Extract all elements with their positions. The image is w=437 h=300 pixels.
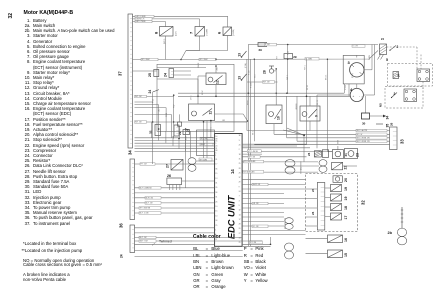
svg-text:W/R .5: W/R .5 [287, 75, 289, 80]
svg-text:36: 36 [215, 168, 217, 170]
svg-text:24: 24 [148, 90, 152, 94]
svg-text:17: 17 [215, 164, 217, 166]
svg-text:31: 31 [215, 197, 217, 199]
svg-text:SB .75: SB .75 [317, 100, 319, 105]
svg-text:27: 27 [166, 164, 170, 168]
svg-text:W/Y .5M: W/Y .5M [201, 138, 208, 140]
svg-text:26: 26 [167, 174, 171, 178]
svg-text:+: + [353, 94, 355, 98]
svg-text:27: 27 [239, 233, 241, 235]
svg-text:LBN/GN: LBN/GN [296, 103, 298, 110]
svg-text:31: 31 [149, 130, 153, 134]
svg-text:26: 26 [239, 172, 241, 174]
svg-text:W/Y .5M: W/Y .5M [263, 82, 270, 84]
svg-text:7: 7 [239, 196, 240, 198]
svg-text:33: 33 [239, 238, 241, 240]
svg-text:20: 20 [344, 178, 348, 182]
svg-text:31: 31 [215, 159, 217, 161]
svg-text:BN .75: BN .75 [326, 75, 328, 80]
svg-text:24: 24 [311, 211, 315, 215]
svg-text:25: 25 [215, 225, 217, 227]
svg-text:R/Y SB/SB-BN: R/Y SB/SB-BN [243, 171, 255, 173]
svg-text:SB .5: SB .5 [253, 131, 255, 135]
svg-text:24: 24 [120, 254, 124, 258]
svg-text:15: 15 [215, 173, 217, 175]
svg-text:14: 14 [239, 214, 241, 216]
svg-text:29: 29 [239, 182, 241, 184]
svg-text:R 1.5M: R 1.5M [251, 82, 253, 88]
svg-text:32: 32 [8, 13, 14, 19]
svg-text:BL/Y 0.5MM SB: BL/Y 0.5MM SB [140, 187, 153, 189]
svg-text:(R 25): (R 25) [352, 73, 354, 78]
svg-text:Twinned: Twinned [159, 239, 172, 243]
svg-text:5: 5 [215, 234, 216, 236]
svg-text:(1.5MM): (1.5MM) [233, 29, 235, 36]
svg-text:29: 29 [259, 48, 263, 52]
svg-text:7: 7 [189, 31, 194, 34]
svg-text:15: 15 [215, 211, 217, 213]
svg-text:34: 34 [128, 150, 133, 155]
svg-text:W/Y .5M: W/Y .5M [249, 157, 256, 159]
svg-text:20: 20 [239, 145, 241, 147]
svg-text:16: 16 [344, 238, 348, 242]
svg-text:13: 13 [215, 178, 217, 180]
svg-text:W/Y .5MM: W/Y .5MM [200, 59, 208, 61]
svg-text:Y/R .5: Y/R .5 [305, 65, 307, 70]
svg-text:24: 24 [239, 191, 241, 193]
svg-text:13: 13 [238, 76, 242, 80]
svg-text:SB/W .5M: SB/W .5M [253, 184, 261, 186]
svg-text:(7.5A): (7.5A) [244, 63, 247, 68]
svg-text:38: 38 [239, 135, 241, 137]
svg-text:11: 11 [209, 111, 213, 115]
svg-text:R 35M: R 35M [345, 84, 347, 90]
svg-text:26: 26 [390, 122, 394, 126]
svg-text:2: 2 [239, 149, 240, 151]
svg-text:LBL: LBL [159, 109, 161, 112]
svg-text:SB/W: SB/W [202, 90, 204, 95]
svg-text:GN/Y .75MM: GN/Y .75MM [136, 21, 146, 23]
svg-text:R .5M: R .5M [265, 44, 270, 46]
svg-text:24: 24 [307, 152, 311, 156]
svg-text:1: 1 [215, 230, 216, 232]
svg-text:EDC UNIT: EDC UNIT [227, 194, 237, 239]
svg-text:W/Y .W: W/Y .W [357, 134, 363, 136]
svg-text:P/Y .5M: P/Y .5M [141, 164, 148, 166]
svg-text:36: 36 [119, 223, 124, 228]
svg-text:BN/W: BN/W [248, 100, 250, 105]
svg-text:R .5M: R .5M [248, 70, 250, 75]
svg-text:GN .5M: GN .5M [253, 203, 259, 205]
svg-text:30: 30 [362, 122, 366, 126]
svg-text:R 1.5: R 1.5 [288, 51, 290, 55]
svg-text:VO .5M: VO .5M [253, 226, 259, 228]
svg-text:37: 37 [118, 71, 123, 76]
svg-text:3: 3 [239, 140, 240, 142]
svg-text:SB .5: SB .5 [180, 129, 182, 133]
svg-text:18: 18 [239, 154, 241, 156]
svg-text:20: 20 [239, 228, 241, 230]
svg-text:NO: NO [379, 103, 383, 107]
svg-text:36: 36 [215, 192, 217, 194]
svg-text:37: 37 [239, 177, 241, 179]
svg-text:SB 1.5 AL/TW: SB 1.5 AL/TW [357, 129, 368, 132]
svg-text:28: 28 [239, 224, 241, 226]
svg-text:SB 1.5: SB 1.5 [307, 85, 309, 90]
svg-text:14: 14 [230, 169, 235, 174]
svg-text:9: 9 [315, 115, 319, 117]
svg-text:R/Y .5M: R/Y .5M [250, 242, 257, 244]
svg-text:10: 10 [215, 215, 217, 217]
svg-text:28: 28 [263, 70, 267, 74]
svg-text:O .5 W: O .5 W [353, 46, 359, 48]
svg-text:12: 12 [216, 80, 220, 84]
svg-text:9: 9 [239, 186, 240, 188]
svg-text:W/Y .5MM SB: W/Y .5MM SB [140, 208, 151, 210]
svg-text:5: 5 [386, 58, 388, 62]
svg-text:35: 35 [215, 187, 217, 189]
svg-text:32: 32 [239, 210, 241, 212]
svg-text:GN/SB: GN/SB [198, 62, 200, 68]
svg-text:29: 29 [293, 55, 297, 59]
svg-text:W .5: W .5 [254, 74, 256, 78]
svg-text:34: 34 [215, 220, 217, 222]
svg-text:BL/Y .5/.5M: BL/Y .5/.5M [140, 213, 149, 215]
svg-text:13: 13 [238, 53, 242, 57]
svg-text:31: 31 [239, 158, 241, 160]
svg-text:33: 33 [400, 139, 405, 144]
svg-text:1: 1 [215, 155, 216, 157]
svg-text:R 10M: R 10M [369, 54, 371, 60]
svg-text:26: 26 [215, 201, 217, 203]
svg-text:R/Y: R/Y [276, 55, 278, 59]
svg-text:BL/Y .5M: BL/Y .5M [146, 203, 154, 205]
svg-text:SB 1.5 R/BN .5W: SB 1.5 R/BN .5W [357, 137, 370, 139]
svg-text:10: 10 [277, 116, 281, 120]
svg-text:23: 23 [356, 153, 360, 157]
svg-text:11: 11 [215, 239, 217, 241]
svg-text:35: 35 [386, 124, 390, 128]
svg-text:9: 9 [239, 205, 240, 207]
svg-text:19: 19 [344, 197, 348, 201]
svg-text:W/Y 1.4M SB: W/Y 1.4M SB [248, 151, 259, 153]
svg-text:25: 25 [148, 73, 152, 77]
svg-text:31: 31 [215, 183, 217, 185]
svg-text:2b: 2b [388, 231, 393, 235]
svg-text:25: 25 [239, 242, 241, 244]
svg-text:R 1.5: R 1.5 [362, 96, 364, 100]
svg-text:R/Y SB/SB-BN: R/Y SB/SB-BN [244, 161, 256, 163]
svg-text:6: 6 [217, 31, 222, 34]
svg-text:19: 19 [344, 187, 348, 191]
svg-text:Y/W: Y/W [174, 104, 176, 108]
svg-text:(0.4Y): (0.4Y) [176, 31, 178, 36]
svg-text:8: 8 [154, 31, 159, 34]
svg-text:32: 32 [361, 200, 366, 205]
svg-text:SB/Y .75M: SB/Y .75M [140, 241, 149, 243]
svg-text:10: 10 [215, 206, 217, 208]
svg-text:OR .5: OR .5 [191, 96, 193, 100]
svg-text:W/Y .5M: W/Y .5M [135, 122, 142, 124]
svg-text:BL/Y .5M: BL/Y .5M [140, 237, 148, 239]
svg-text:17: 17 [344, 216, 348, 220]
svg-text:O 15MM: O 15MM [207, 29, 209, 36]
svg-text:28: 28 [239, 168, 241, 170]
svg-text:15: 15 [344, 253, 348, 257]
svg-text:17: 17 [239, 219, 241, 221]
svg-text:24: 24 [164, 73, 168, 77]
svg-text:25: 25 [239, 163, 241, 165]
svg-text:18: 18 [344, 206, 348, 210]
svg-text:W/Y .5M: W/Y .5M [135, 96, 142, 98]
svg-text:R 1.5: R 1.5 [153, 99, 155, 103]
svg-text:BL/W .5M: BL/W .5M [146, 197, 154, 199]
svg-text:34: 34 [386, 116, 390, 120]
svg-text:SB 1.5 R/BN .5W: SB 1.5 R/BN .5W [357, 141, 370, 143]
svg-text:3: 3 [348, 60, 351, 65]
svg-text:21: 21 [344, 153, 348, 157]
svg-text:24: 24 [381, 37, 384, 41]
svg-text:2: 2 [394, 92, 396, 96]
svg-text:R/Y .5: R/Y .5 [211, 127, 213, 132]
svg-text:-: - [359, 94, 360, 98]
svg-text:3: 3 [239, 200, 240, 202]
svg-text:W/Y .5MM: W/Y .5MM [142, 59, 150, 61]
